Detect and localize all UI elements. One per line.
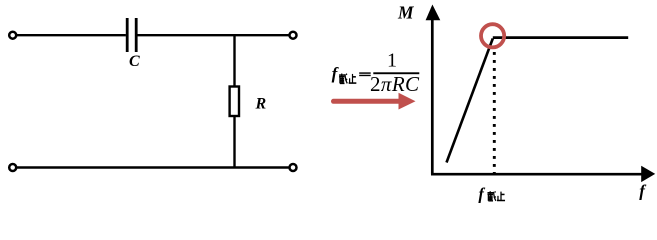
dotted guide line at cutoff frequency [493,52,496,173]
graph horizontal axis (f axis) [431,173,642,176]
svg-text:2πRC: 2πRC [370,72,420,96]
wire: bottom rail [17,166,289,168]
response curve rising segment [447,39,493,163]
svg-text:R: R [255,96,267,113]
red arrow pointing to graph [331,93,415,110]
formula equals sign [359,72,371,76]
graph vertical axis (M axis) [431,18,434,174]
red circle marker at cutoff knee [481,24,504,47]
svg-text:f: f [639,182,647,201]
cutoff label subscript 截 [487,191,495,201]
wire: vertical from top rail down to resistor [233,35,235,86]
terminal: bottom-right port [290,164,297,171]
svg-text:f: f [478,184,485,203]
formula fraction bar [373,72,419,74]
capacitor C [127,18,136,52]
response curve flat segment [493,36,628,39]
formula subscript 止 [349,74,357,83]
wire: top rail right segment (capacitor to output) [138,34,289,36]
svg-text:M: M [397,3,415,23]
graph horizontal axis arrowhead [641,166,655,182]
svg-text:1: 1 [387,50,397,72]
terminal: top-right output port [290,32,297,39]
svg-text:f: f [332,64,340,83]
svg-text:C: C [129,53,140,70]
wire: top rail left segment (input to capacitor) [17,34,126,36]
wire: vertical from resistor down to bottom rail [233,117,235,168]
formula subscript 截 [339,74,347,84]
graph vertical axis arrowhead [426,5,441,21]
cutoff label subscript 止 [497,192,505,201]
terminal: top-left input port [9,32,16,39]
resistor R [230,87,239,117]
terminal: bottom-left port [9,164,16,171]
